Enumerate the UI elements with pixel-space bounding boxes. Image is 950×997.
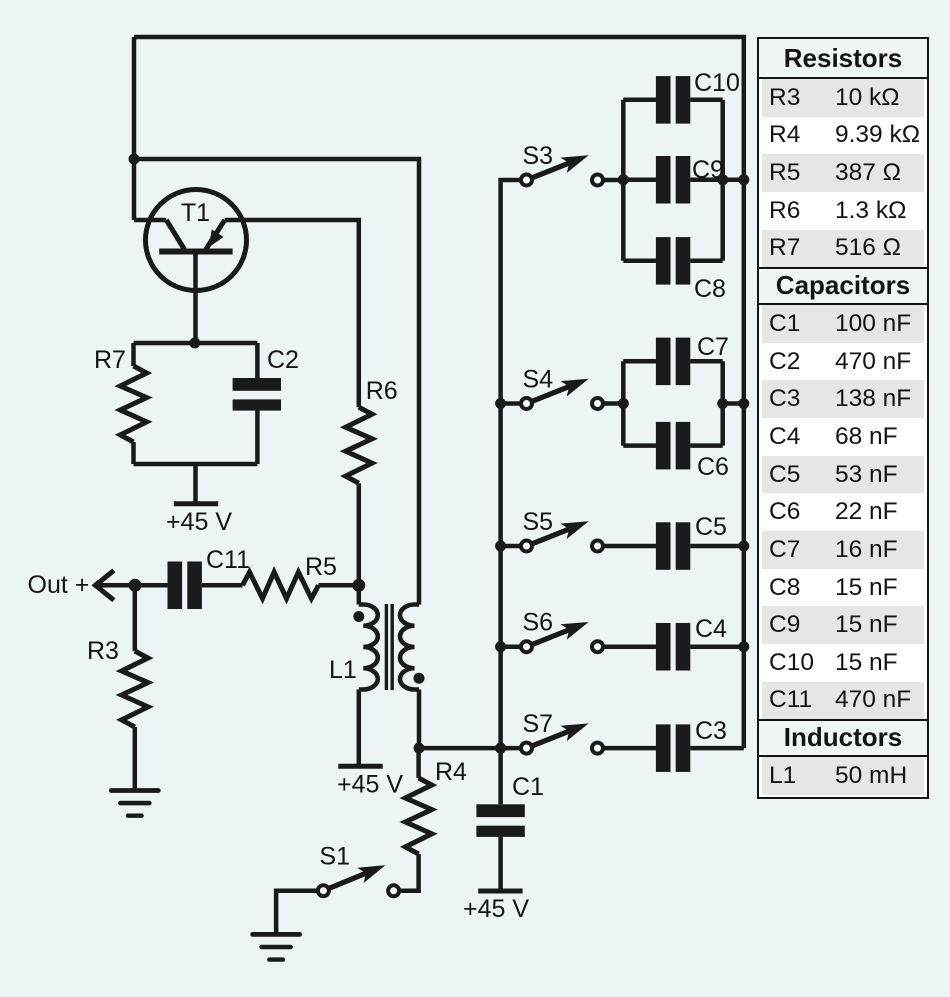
svg-text:+45 V: +45 V — [463, 895, 529, 923]
svg-text:C10: C10 — [694, 69, 740, 97]
wire C8 row right — [690, 259, 722, 264]
transistor T1 — [146, 190, 247, 291]
node right rail C7C6 row — [738, 398, 749, 409]
wire C7 row left — [623, 359, 656, 364]
svg-text:S5: S5 — [523, 508, 554, 536]
wire C5 row right — [690, 544, 744, 549]
wire emitter to R6 — [225, 220, 359, 407]
svg-text:R5: R5 — [305, 553, 337, 581]
node bus junction y=748.1 — [495, 743, 506, 754]
node out junction — [129, 579, 142, 592]
node bus junction y=403.5 — [495, 398, 506, 409]
wire S7 row from node — [419, 746, 521, 751]
svg-text:L1: L1 — [329, 656, 357, 684]
switch S4 left terminal — [521, 398, 532, 409]
svg-text:T1: T1 — [181, 199, 210, 227]
svg-text:C7: C7 — [697, 333, 729, 361]
capacitor C7 — [656, 338, 671, 386]
wire bus S5 stub — [501, 544, 522, 549]
wire group2 right rail — [720, 361, 725, 445]
switch S5 right terminal — [592, 541, 603, 552]
capacitor C2 — [233, 343, 281, 464]
inductor L1 secondary winding — [400, 605, 419, 749]
wire bus S6 stub — [501, 644, 522, 649]
svg-text:S1: S1 — [319, 843, 350, 871]
wire S4 to group rail — [603, 401, 623, 406]
wire group1 left rail — [621, 100, 626, 261]
node bus junction y=646.7 — [495, 641, 506, 652]
switch S7 lever — [531, 723, 589, 746]
inductor L1 primary winding — [359, 585, 378, 766]
svg-text:R4: R4 — [435, 758, 467, 786]
wire S1 to ground — [276, 891, 318, 934]
svg-text:S7: S7 — [523, 710, 554, 738]
node A — [129, 154, 140, 165]
svg-text:C3: C3 — [695, 717, 727, 745]
switch S3 left terminal — [521, 175, 532, 186]
switch S5 lever — [531, 521, 589, 544]
switch S6 right terminal — [592, 641, 603, 652]
svg-text:S6: S6 — [523, 609, 554, 637]
wire C10 row right — [690, 98, 722, 103]
node right rail C9 row — [738, 174, 749, 185]
node right rail C5 row — [738, 541, 749, 552]
node L1 top — [352, 579, 365, 592]
wire S3 to group rail — [603, 178, 623, 183]
wire C11 to R5 — [202, 583, 243, 588]
wire C6 row left — [623, 443, 656, 448]
switch S5 left terminal — [521, 541, 532, 552]
wire C9 row right — [690, 177, 722, 182]
ground (S1) — [253, 932, 300, 937]
node group2 right junction — [717, 398, 728, 409]
capacitor C8 — [656, 237, 671, 285]
resistor R7 — [120, 343, 146, 464]
switch S3 right terminal — [592, 175, 603, 186]
capacitor C1 — [476, 748, 524, 891]
wire out node to R3 — [133, 585, 138, 651]
svg-text:C1: C1 — [512, 773, 544, 801]
resistor R3 — [122, 651, 148, 727]
power +45V (C1) — [478, 889, 522, 894]
wire out row — [95, 583, 167, 588]
node base junction — [189, 338, 200, 349]
wire R6 to node L1 — [357, 483, 362, 585]
wire R5 to node L1 — [319, 583, 359, 588]
switch S7 right terminal — [592, 743, 603, 754]
wire bus S4 stub — [501, 401, 522, 406]
power +45V (L1) — [338, 764, 382, 769]
wire collector lead — [134, 218, 166, 223]
wire C10 row left — [623, 98, 656, 103]
wire top loop (collector supply to right rail) — [134, 37, 744, 748]
wire node A to transformer secondary top — [134, 159, 419, 605]
svg-text:C8: C8 — [694, 275, 726, 303]
wire group2 left rail — [621, 361, 626, 445]
svg-text:R7: R7 — [94, 346, 126, 374]
wire to +45V (R7C2) — [193, 464, 198, 504]
capacitor C6 — [656, 422, 671, 470]
svg-text:C11: C11 — [206, 546, 250, 574]
inductor L1 phase dot (primary) — [353, 611, 364, 622]
wire R7C2 top — [134, 341, 258, 346]
ground (R3) — [111, 788, 158, 793]
wire C6 row right — [690, 443, 722, 448]
node bus junction y=546 — [495, 541, 506, 552]
wire group1 to right rail — [723, 177, 744, 182]
capacitor C9 — [656, 156, 671, 204]
svg-text:+45 V: +45 V — [337, 770, 403, 798]
wire C4 row left — [603, 644, 656, 649]
svg-text:+45 V: +45 V — [166, 508, 232, 536]
resistor R6 — [346, 407, 372, 483]
inductor L1 core — [386, 604, 392, 690]
svg-text:C4: C4 — [695, 615, 727, 643]
svg-text:S4: S4 — [523, 366, 554, 394]
wire base lead — [193, 252, 198, 344]
wire C8 row left — [623, 259, 656, 264]
wire left drop to collector — [132, 37, 137, 220]
svg-text:R3: R3 — [87, 637, 119, 665]
capacitor C5 — [656, 522, 671, 570]
capacitor C4 — [656, 623, 671, 671]
node group1 left junction — [618, 174, 629, 185]
resistor R5 — [243, 572, 319, 598]
switch S1 lever — [328, 865, 385, 889]
out arrow — [95, 572, 112, 599]
wire C9 row left — [623, 177, 656, 182]
component value table — [757, 37, 929, 799]
wire C7 row right — [690, 359, 722, 364]
capacitor C11 — [168, 562, 183, 610]
switch S1 left terminal — [318, 885, 329, 896]
node R4 top — [414, 743, 425, 754]
node group2 left junction — [618, 398, 629, 409]
wire C3 row left — [603, 746, 656, 751]
wire R3 to ground — [133, 727, 138, 790]
switch S3 lever — [531, 155, 589, 178]
node right rail C4 row — [738, 641, 749, 652]
svg-text:R6: R6 — [366, 377, 398, 405]
wire C3 row right — [690, 746, 744, 751]
capacitor C10 — [656, 76, 671, 124]
svg-text:S3: S3 — [523, 142, 554, 170]
switch S6 left terminal — [521, 641, 532, 652]
wire R7C2 bottom — [134, 462, 258, 467]
wire group2 to right rail — [723, 401, 744, 406]
switch S4 right terminal — [592, 398, 603, 409]
wire group1 right rail — [720, 100, 725, 261]
svg-text:C5: C5 — [695, 513, 727, 541]
node group1 right junction — [717, 174, 728, 185]
switch S6 lever — [531, 622, 589, 645]
switch S7 left terminal — [521, 743, 532, 754]
svg-text:C6: C6 — [697, 453, 729, 481]
capacitor C3 — [656, 724, 671, 772]
wire switch bus — [501, 180, 522, 748]
resistor R4 — [399, 748, 432, 891]
wire C5 row left — [603, 544, 656, 549]
switch S4 lever — [531, 379, 589, 402]
inductor L1 phase dot (secondary) — [414, 673, 425, 684]
switch S1 right terminal — [388, 885, 399, 896]
wire C4 row right — [690, 644, 744, 649]
svg-text:Out +: Out + — [28, 571, 90, 599]
power +45V (R7C2) — [174, 501, 218, 506]
node C1 top — [495, 743, 506, 754]
svg-text:C2: C2 — [267, 346, 299, 374]
